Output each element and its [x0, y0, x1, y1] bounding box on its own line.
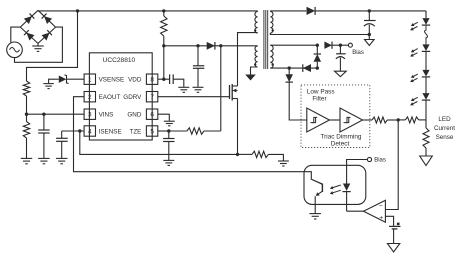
svg-text:3: 3 [88, 112, 92, 119]
svg-text:VSENSE: VSENSE [99, 77, 125, 84]
svg-text:VDD: VDD [128, 77, 142, 84]
svg-text:ISENSE: ISENSE [99, 128, 122, 135]
svg-text:VINS: VINS [99, 112, 114, 119]
svg-text:GDRV: GDRV [123, 94, 142, 101]
svg-text:+: + [379, 214, 383, 221]
svg-text:Low Pass: Low Pass [307, 88, 335, 95]
svg-text:2: 2 [88, 94, 92, 101]
svg-text:Filter: Filter [312, 96, 327, 103]
svg-text:Detect: Detect [331, 140, 350, 147]
svg-text:−: − [379, 203, 383, 210]
svg-text:1: 1 [88, 77, 92, 84]
svg-text:UCC28810: UCC28810 [103, 57, 136, 64]
svg-text:6: 6 [150, 112, 154, 119]
svg-text:GND: GND [127, 112, 141, 119]
svg-text:7: 7 [150, 94, 154, 101]
svg-text:Bias: Bias [374, 158, 386, 164]
svg-text:4: 4 [88, 128, 92, 135]
svg-text:Bias: Bias [352, 50, 364, 56]
svg-text:8: 8 [150, 77, 154, 84]
svg-text:Sense: Sense [436, 134, 454, 141]
svg-text:LED: LED [438, 116, 451, 123]
svg-text:EAOUT: EAOUT [99, 94, 121, 101]
svg-text:Triac Dimming: Triac Dimming [321, 133, 362, 140]
svg-text:Current: Current [434, 125, 455, 132]
svg-text:TZE: TZE [129, 128, 141, 135]
svg-text:5: 5 [150, 128, 154, 135]
